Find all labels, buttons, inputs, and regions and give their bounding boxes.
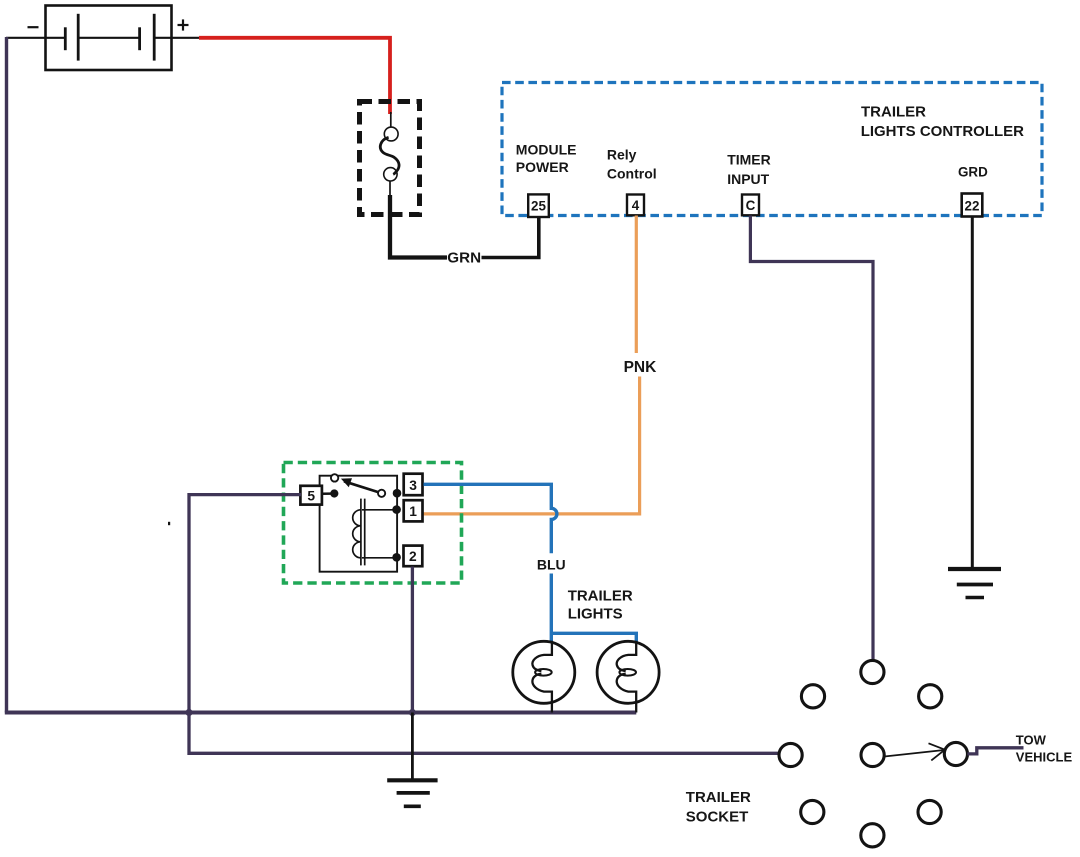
junction dot pin5 wire over ground bus bbox=[185, 709, 192, 716]
wire socket to tow vehicle bbox=[967, 748, 1023, 754]
svg-text:Control: Control bbox=[607, 166, 657, 182]
wire battery positive (red) bbox=[199, 38, 390, 114]
ground (controller GRD) bbox=[948, 569, 1001, 598]
pin 1 bbox=[404, 500, 423, 521]
wire pin 5 to socket left pin bbox=[189, 495, 780, 754]
svg-text:PNK: PNK bbox=[624, 359, 658, 376]
svg-text:C: C bbox=[746, 198, 756, 213]
battery plus label bbox=[178, 19, 189, 30]
lamp L1 bbox=[513, 641, 575, 713]
trailer socket pin bottom bbox=[861, 824, 884, 847]
wire ground bus to earth bbox=[411, 713, 414, 781]
svg-text:TOW: TOW bbox=[1016, 733, 1047, 748]
arrow center pin to tow pin bbox=[885, 743, 945, 760]
svg-text:LIGHTS: LIGHTS bbox=[568, 606, 623, 623]
svg-text:POWER: POWER bbox=[516, 159, 569, 175]
svg-text:22: 22 bbox=[965, 199, 980, 214]
trailer socket pin lower-right bbox=[918, 800, 941, 823]
pin 25 bbox=[528, 194, 549, 217]
trailer socket pin center bbox=[861, 743, 884, 766]
trailer socket pin right bbox=[944, 742, 967, 765]
svg-text:2: 2 bbox=[409, 549, 417, 564]
pin C bbox=[742, 195, 759, 216]
pin 4 bbox=[627, 195, 644, 216]
pin 5 bbox=[300, 486, 322, 505]
wire pin 2 down to ground bus bbox=[411, 567, 414, 713]
battery minus label bbox=[28, 26, 39, 28]
relay enclosure (green dashed) bbox=[284, 463, 462, 584]
svg-text:TRAILER: TRAILER bbox=[686, 789, 751, 806]
relay pin5 junction dot bbox=[330, 489, 338, 497]
svg-text:5: 5 bbox=[307, 489, 315, 504]
trailer lights controller enclosure bbox=[502, 83, 1042, 216]
junction dot pin2 wire on ground bus bbox=[409, 709, 416, 716]
svg-text:LIGHTS CONTROLLER: LIGHTS CONTROLLER bbox=[861, 123, 1024, 140]
svg-text:GRD: GRD bbox=[958, 165, 988, 180]
wire pin 3 BLU upper (with hop over PNK) bbox=[424, 484, 557, 553]
wire fuse to GRN label bbox=[390, 195, 447, 258]
wire pin 4 PNK lower bbox=[424, 377, 640, 514]
trailer socket pin top bbox=[861, 660, 884, 683]
wire battery negative down left side bbox=[5, 37, 8, 713]
svg-text:SOCKET: SOCKET bbox=[686, 809, 749, 826]
wire pin 22 to ground bbox=[971, 217, 974, 570]
battery B1 bbox=[6, 6, 200, 71]
relay switch common contact bbox=[378, 490, 385, 497]
pin 22 bbox=[962, 194, 983, 217]
svg-text:TRAILER: TRAILER bbox=[568, 587, 633, 604]
pin 3 bbox=[404, 474, 423, 496]
stray mark bbox=[168, 522, 170, 525]
svg-text:1: 1 bbox=[409, 504, 417, 519]
svg-text:TRAILER: TRAILER bbox=[861, 104, 926, 121]
svg-text:BLU: BLU bbox=[537, 557, 566, 573]
svg-text:3: 3 bbox=[409, 478, 417, 493]
svg-text:Rely: Rely bbox=[607, 147, 637, 163]
pin 2 bbox=[404, 546, 423, 567]
svg-text:MODULE: MODULE bbox=[516, 141, 577, 157]
svg-text:VEHICLE: VEHICLE bbox=[1016, 750, 1073, 765]
svg-text:25: 25 bbox=[531, 199, 546, 214]
wire pin 4 PNK upper bbox=[635, 216, 638, 354]
ground (battery return) bbox=[387, 780, 437, 806]
wire BLU branch to lamp L2 bbox=[551, 633, 636, 642]
svg-text:4: 4 bbox=[632, 198, 640, 213]
trailer socket pin upper-left bbox=[801, 685, 824, 708]
svg-text:GRN: GRN bbox=[447, 249, 481, 266]
svg-text:INPUT: INPUT bbox=[727, 171, 769, 187]
relay pin2 junction dot bbox=[392, 553, 401, 562]
svg-text:TIMER: TIMER bbox=[727, 152, 771, 168]
relay switch fixed contact bbox=[331, 474, 338, 481]
trailer socket pin left bbox=[779, 743, 802, 766]
trailer socket pin lower-left bbox=[801, 800, 824, 823]
relay K1 body bbox=[320, 476, 398, 572]
wire GRN to pin 25 bbox=[482, 216, 539, 258]
wire pin C to trailer socket bbox=[750, 216, 873, 662]
wire pin 3 BLU lower bbox=[550, 574, 553, 642]
wire ground bus horizontal bbox=[5, 711, 637, 715]
trailer socket pin upper-right bbox=[919, 685, 942, 708]
lamp L2 bbox=[597, 641, 659, 713]
relay switch arm bbox=[344, 481, 378, 492]
relay pin1 junction dot bbox=[392, 505, 401, 514]
fuse F1 bbox=[360, 102, 420, 215]
relay pin3 junction dot bbox=[393, 489, 402, 498]
relay coil bbox=[353, 499, 397, 566]
